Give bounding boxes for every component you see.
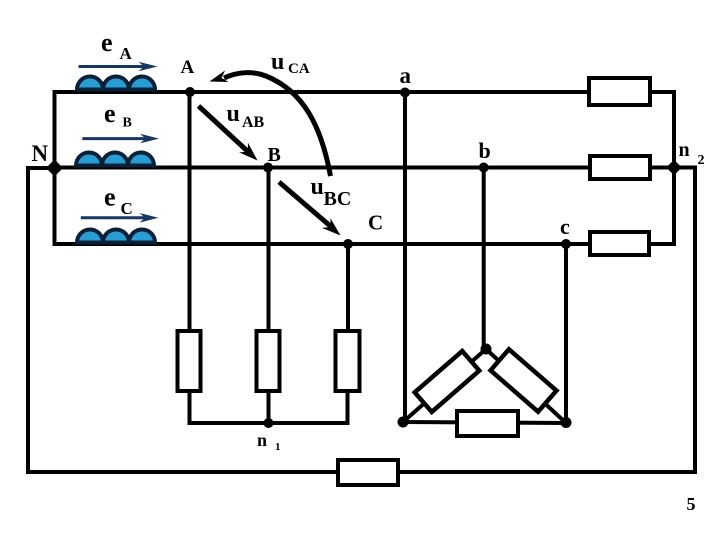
node c [561,239,571,249]
emf arrow eC [81,213,159,223]
wire: delta right side [486,349,566,423]
wire: vertical from node A to star load 1 [188,92,192,331]
svg-text:C: C [121,199,133,218]
resistor Rc (phase c, right) [590,232,649,255]
node n1 [264,418,274,428]
wire: right load bus vertical [672,90,676,246]
svg-text:BC: BC [324,188,352,210]
svg-text:u: u [311,174,324,200]
wire: Ra right lead [650,90,676,94]
svg-text:e: e [104,183,116,212]
resistor R1b (star load 1, middle) [257,331,280,391]
coil eA (phase A winding) [77,77,155,90]
wire: vertical from node b to delta top vertex [482,168,486,351]
svg-text:B: B [268,144,281,166]
wire: star1 middle bottom stub [267,391,271,425]
wire: star1 left bottom stub [188,391,192,425]
svg-text:2: 2 [698,153,705,168]
svg-text:A: A [120,44,133,63]
svg-text:e: e [104,99,116,128]
resistor R1a (star load 1, left) [178,331,201,391]
wire: left source bus vertical [53,90,57,246]
svg-text:AB: AB [242,114,265,131]
svg-text:A: A [181,57,195,78]
emf arrow eA [79,62,158,72]
node delta-right [561,417,572,428]
svg-text:CA: CA [288,61,310,77]
wire: neutral stub from N to left vertical [26,166,55,170]
svg-text:u: u [227,101,240,127]
svg-text:n: n [679,139,690,161]
wire: star1 neutral bus n1 [188,421,350,425]
wire: vertical from node B to star load 1 [267,168,271,332]
wire: phase B horizontal line [53,166,589,170]
wire: vertical from node a to delta left vertex [403,92,407,422]
coil eB (phase B winding) [76,153,154,166]
wire: Rb right lead [650,166,674,170]
voltage arrow uCA (curved) [224,73,331,176]
wire: phase A horizontal line [53,90,588,94]
svg-text:N: N [32,141,49,166]
svg-text:u: u [271,49,284,75]
wire: bottom neutral left segment [26,470,338,474]
svg-text:e: e [101,28,113,57]
node N [46,160,63,177]
node A [185,87,195,97]
svg-text:c: c [560,214,570,239]
svg-text:1: 1 [275,441,281,453]
resistor Rbc (delta right diagonal) [491,349,557,411]
wire: delta bottom side [403,422,566,423]
svg-text:a: a [400,63,412,88]
node a [400,88,410,98]
wire: bottom neutral right segment [398,470,697,474]
wire: phase C horizontal line [53,242,589,246]
coil eC (phase C winding) [77,230,155,243]
node n2 [666,160,682,176]
node b [479,163,489,173]
svg-text:B: B [123,116,132,131]
voltage arrow uAB [199,106,258,161]
resistor R1c (star load 1, right) [336,331,360,391]
node delta-left [398,417,409,428]
node delta-top [481,344,492,355]
resistor Ra (phase a, top right) [589,78,650,105]
wire: star1 right bottom stub [346,391,350,425]
resistor Rb (phase b, right) [590,156,650,179]
node C [343,239,353,249]
wire: n2 stub to right vertical [674,166,697,170]
wire: Rc right lead [649,242,674,246]
wire: vertical from node C to star load 1 [346,244,350,331]
wire: right outer vertical [693,166,697,474]
wire: vertical from node c to delta right vertex [564,244,568,423]
resistor RN (neutral, bottom) [338,460,398,485]
node B [263,163,273,173]
resistor Rca (delta bottom) [457,411,518,436]
emf arrow eB [82,134,159,144]
svg-text:5: 5 [687,494,696,514]
wire: left outer vertical (neutral) [26,166,30,474]
resistor Rab (delta left diagonal) [415,351,480,412]
wire: delta left side [403,349,486,422]
voltage arrow uBC [279,182,341,236]
svg-text:C: C [368,211,383,235]
svg-text:b: b [479,138,491,163]
svg-text:n: n [257,430,267,450]
